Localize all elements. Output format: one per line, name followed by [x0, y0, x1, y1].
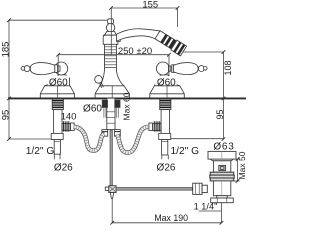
svg-text:Max 190: Max 190	[154, 213, 188, 223]
svg-text:Ø26: Ø26	[54, 162, 73, 173]
svg-text:Ø60: Ø60	[49, 77, 68, 88]
svg-text:Ø60: Ø60	[83, 103, 102, 114]
svg-text:1/2" G: 1/2" G	[171, 146, 200, 157]
svg-text:250 ±20: 250 ±20	[118, 46, 152, 57]
svg-text:Max 60: Max 60	[121, 92, 131, 120]
svg-text:1 1/4": 1 1/4"	[194, 201, 218, 211]
svg-text:155: 155	[142, 0, 158, 11]
svg-text:95: 95	[1, 110, 12, 121]
svg-text:1/2" G: 1/2" G	[26, 146, 55, 157]
svg-text:95: 95	[215, 109, 225, 119]
svg-text:108: 108	[223, 60, 233, 75]
svg-text:Ø63: Ø63	[213, 142, 234, 153]
svg-text:Ø26: Ø26	[157, 163, 176, 174]
svg-text:140: 140	[61, 111, 77, 122]
svg-text:Max 50: Max 50	[237, 151, 246, 179]
svg-text:185: 185	[1, 42, 12, 58]
svg-text:Ø60: Ø60	[157, 77, 176, 88]
